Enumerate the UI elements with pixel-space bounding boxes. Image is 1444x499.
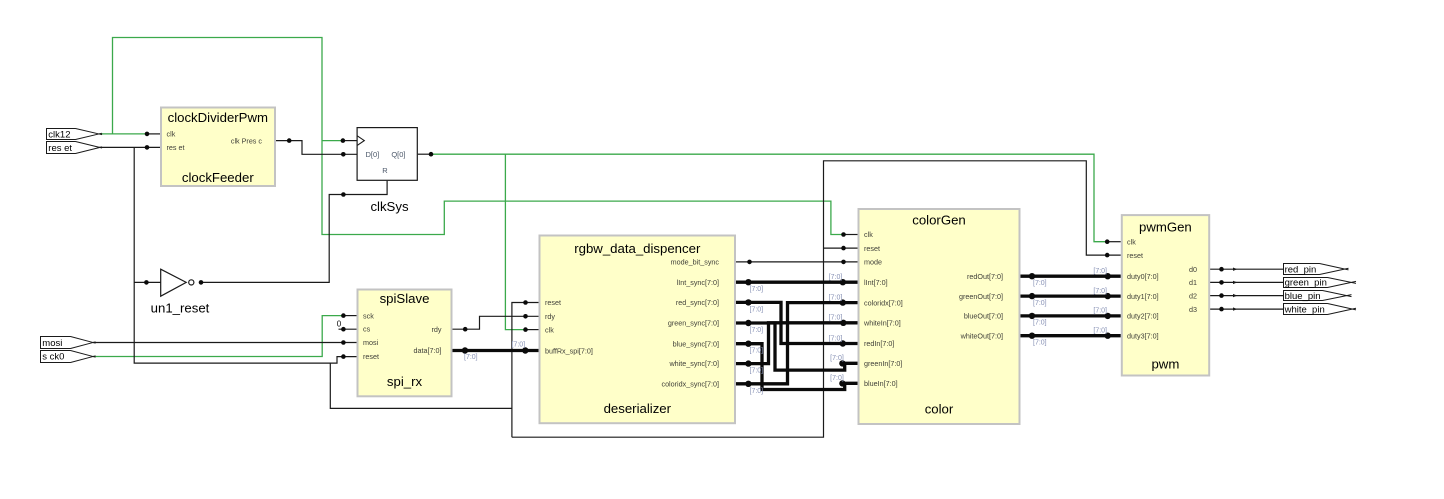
- node duty3 pin: [1105, 333, 1111, 339]
- module U4 deserializer (rgbw_data_dispencer): [540, 236, 736, 424]
- node colorGen reset pin: [841, 246, 846, 251]
- svg-text:green_pin: green_pin: [1285, 278, 1327, 289]
- wire clk12 black stubs at pins: [147, 134, 858, 235]
- svg-text:color: color: [925, 402, 954, 417]
- node colorGen lInt pin: [840, 279, 846, 285]
- input port reset: [47, 142, 103, 155]
- svg-text:clk12: clk12: [48, 130, 70, 141]
- node deserializer rdy pin: [523, 314, 528, 319]
- node whiteOut output: [1029, 333, 1035, 339]
- wire net clkSys Q (green: clkSys Q to deserializer clk and pwmGen clk): [431, 154, 1107, 329]
- node clkSys clk pin: [341, 138, 346, 143]
- svg-text:res et: res et: [167, 143, 185, 152]
- svg-text:spiSlave: spiSlave: [380, 291, 430, 306]
- svg-text:[7:0]: [7:0]: [1093, 328, 1107, 335]
- wire clkSys Q black stubs: [418, 154, 1121, 329]
- node white_sync output: [745, 360, 751, 366]
- svg-text:D[0]: D[0]: [366, 150, 380, 159]
- svg-text:d0: d0: [1189, 265, 1197, 274]
- svg-text:R: R: [382, 166, 388, 175]
- wire net sck0 (green: sck0 port to spiSlave sck): [93, 316, 344, 357]
- svg-text:reset: reset: [864, 244, 880, 253]
- arrow tick on d0 wire: [1233, 268, 1237, 271]
- wire net clkPresc (clockDividerPwm clkPresc to clkSys D): [276, 141, 357, 155]
- svg-text:data[7:0]: data[7:0]: [414, 346, 442, 355]
- svg-text:[7:0]: [7:0]: [464, 354, 478, 361]
- node colorGen blueIn pin: [839, 380, 845, 386]
- wire net reset (reset port to clockFeeder, un1_reset, spiSlave, deserializer, colorGen, pwmGen): [99, 147, 1121, 437]
- output port blue_pin: [1284, 291, 1352, 302]
- svg-text:[7:0]: [7:0]: [1093, 288, 1107, 295]
- node colorGen mode pin: [841, 260, 846, 265]
- node coloridx_sync output: [745, 381, 751, 387]
- svg-text:whiteOut[7:0]: whiteOut[7:0]: [960, 331, 1003, 340]
- svg-text:mosi: mosi: [42, 338, 62, 349]
- node spiSlave mosi pin: [341, 340, 346, 345]
- svg-text:d2: d2: [1189, 291, 1197, 300]
- node spiSlave rdy output: [463, 327, 468, 332]
- svg-text:[7:0]: [7:0]: [750, 348, 764, 355]
- node lInt_sync output: [745, 279, 751, 285]
- svg-text:whiteIn[7:0]: whiteIn[7:0]: [863, 319, 901, 328]
- node deserializer buffRx_spi pin: [522, 347, 528, 353]
- node redOut output: [1029, 273, 1035, 279]
- node greenOut output: [1029, 293, 1035, 299]
- svg-text:0: 0: [337, 320, 342, 329]
- svg-text:rdy: rdy: [432, 325, 442, 334]
- node pwmGen clk pin: [1105, 239, 1110, 244]
- module U3 spi_rx (spiSlave): [358, 290, 452, 397]
- wire net mode_bit_sync (deserializer to colorGen mode): [736, 261, 858, 263]
- wire net d3 (pwmGen d3 to white_pin): [1210, 308, 1283, 310]
- inverter un1_reset: [151, 269, 210, 315]
- svg-text:clockFeeder: clockFeeder: [182, 170, 254, 185]
- svg-text:d1: d1: [1189, 278, 1197, 287]
- svg-text:mosi: mosi: [363, 338, 379, 347]
- svg-text:[7:0]: [7:0]: [750, 368, 764, 375]
- output port white_pin: [1284, 304, 1357, 316]
- svg-text:clk: clk: [545, 325, 554, 334]
- flip-flop U2 clkSys: [357, 128, 417, 214]
- bus net coloridx_sync[7:0] (deserializer to colorGen coloridx): [736, 303, 858, 384]
- node d2 output: [1219, 293, 1224, 298]
- svg-text:[7:0]: [7:0]: [750, 388, 764, 395]
- bus net green_sync[7:0] (deserializer to colorGen greenIn): [736, 323, 858, 370]
- svg-text:clkSys: clkSys: [370, 199, 409, 214]
- svg-text:duty3[7:0]: duty3[7:0]: [1127, 331, 1159, 340]
- svg-text:[7:0]: [7:0]: [829, 335, 843, 342]
- node colorGen coloridx pin: [840, 299, 846, 305]
- svg-text:duty1[7:0]: duty1[7:0]: [1127, 292, 1159, 301]
- module U1 clockFeeder (clockDividerPwm): [161, 108, 275, 187]
- svg-text:[7:0]: [7:0]: [829, 274, 843, 281]
- svg-text:cs: cs: [363, 325, 371, 334]
- node un1_reset input: [144, 280, 149, 285]
- svg-text:blue_sync[7:0]: blue_sync[7:0]: [673, 339, 719, 348]
- svg-text:mode: mode: [864, 258, 882, 267]
- svg-text:buffRx_spi[7:0]: buffRx_spi[7:0]: [545, 346, 593, 355]
- svg-text:sck: sck: [363, 311, 374, 320]
- svg-text:res et: res et: [48, 143, 72, 154]
- svg-text:white_sync[7:0]: white_sync[7:0]: [668, 359, 719, 368]
- input port sck0: [41, 351, 96, 363]
- svg-text:mode_bit_sync: mode_bit_sync: [671, 258, 720, 267]
- node duty2 pin: [1105, 313, 1111, 319]
- svg-text:coloridx[7:0]: coloridx[7:0]: [864, 298, 903, 307]
- node clockFeeder clk pin: [145, 132, 150, 137]
- svg-text:pwm: pwm: [1151, 356, 1179, 371]
- svg-text:blue_pin: blue_pin: [1285, 291, 1321, 302]
- svg-text:Q[0]: Q[0]: [391, 150, 405, 159]
- svg-text:blueOut[7:0]: blueOut[7:0]: [964, 312, 1003, 321]
- wire net rdy (spiSlave rdy to deserializer rdy): [453, 316, 539, 329]
- node clkPresc output: [287, 138, 292, 143]
- node duty1 pin: [1105, 293, 1111, 299]
- svg-text:s ck0: s ck0: [42, 352, 64, 363]
- node clkSys Q output: [429, 152, 434, 157]
- svg-text:[7:0]: [7:0]: [512, 342, 526, 349]
- svg-text:[7:0]: [7:0]: [750, 286, 764, 293]
- svg-text:d3: d3: [1189, 305, 1197, 314]
- node pwmGen reset pin: [1105, 253, 1110, 258]
- module U5 color (colorGen): [859, 209, 1020, 424]
- svg-text:duty2[7:0]: duty2[7:0]: [1127, 312, 1159, 321]
- svg-text:coloridx_sync[7:0]: coloridx_sync[7:0]: [661, 379, 719, 388]
- bus net blue_sync[7:0] (deserializer to colorGen blueIn): [736, 344, 858, 390]
- node clkSys D pin: [341, 152, 346, 157]
- node green_sync output: [745, 320, 751, 326]
- svg-text:red_sync[7:0]: red_sync[7:0]: [676, 298, 719, 307]
- bus net redOut[7:0] (colorGen to pwmGen duty0): [1021, 275, 1121, 278]
- input port mosi: [41, 337, 96, 349]
- svg-text:[7:0]: [7:0]: [830, 355, 844, 362]
- svg-text:white_pin: white_pin: [1284, 304, 1325, 315]
- node d3 output: [1219, 307, 1224, 312]
- node colorGen clk pin: [841, 232, 846, 237]
- node clkSys R net: [341, 192, 346, 197]
- svg-text:reset: reset: [1127, 251, 1143, 260]
- svg-text:clk: clk: [1127, 237, 1136, 246]
- wire net d2 (pwmGen d2 to blue_pin): [1210, 295, 1283, 297]
- svg-text:red_pin: red_pin: [1285, 265, 1317, 276]
- svg-text:[7:0]: [7:0]: [1093, 308, 1107, 315]
- svg-text:[7:0]: [7:0]: [830, 375, 844, 382]
- node colorGen redIn pin: [840, 340, 846, 346]
- node d1 output: [1219, 280, 1224, 285]
- bus net whiteOut[7:0] (colorGen to pwmGen duty3): [1021, 334, 1121, 337]
- svg-text:[7:0]: [7:0]: [1033, 280, 1047, 287]
- svg-text:lInt_sync[7:0]: lInt_sync[7:0]: [677, 278, 719, 287]
- wire net un1_reset out (inverter output to clkSys R): [201, 181, 387, 283]
- svg-text:clk: clk: [864, 230, 873, 239]
- svg-text:greenOut[7:0]: greenOut[7:0]: [959, 292, 1003, 301]
- svg-text:spi_rx: spi_rx: [387, 374, 423, 389]
- bus net red_sync[7:0] (deserializer to colorGen redIn): [736, 302, 858, 343]
- input port clk12: [47, 129, 103, 141]
- svg-text:[7:0]: [7:0]: [750, 327, 764, 334]
- svg-text:clockDividerPwm: clockDividerPwm: [168, 110, 268, 125]
- arrow tick on d2 wire: [1233, 294, 1237, 297]
- node un1_reset output: [199, 280, 204, 285]
- bus net blueOut[7:0] (colorGen to pwmGen duty2): [1021, 314, 1121, 317]
- wire net d0 (pwmGen d0 to red_pin): [1210, 268, 1283, 270]
- node spiSlave cs pin: [341, 327, 346, 332]
- svg-text:lInt[7:0]: lInt[7:0]: [864, 278, 888, 287]
- svg-text:[7:0]: [7:0]: [1093, 268, 1107, 275]
- wire net mosi (mosi port to spiSlave mosi): [93, 342, 357, 344]
- node spiSlave sck pin: [341, 313, 346, 318]
- svg-text:redOut[7:0]: redOut[7:0]: [967, 272, 1003, 281]
- node mode_bit_sync output: [747, 260, 752, 265]
- node colorGen greenIn pin: [839, 360, 845, 366]
- svg-text:clk: clk: [167, 130, 176, 139]
- svg-text:un1_reset: un1_reset: [151, 300, 210, 315]
- svg-text:reset: reset: [545, 298, 561, 307]
- arrow tick on d1 wire: [1233, 281, 1237, 284]
- bus net white_sync[7:0] (deserializer to colorGen whiteIn): [736, 323, 858, 364]
- node deserializer reset pin: [523, 300, 528, 305]
- node deserializer clk pin: [523, 327, 528, 332]
- output port red_pin: [1284, 264, 1349, 276]
- node colorGen whiteIn pin: [840, 320, 846, 326]
- svg-text:blueIn[7:0]: blueIn[7:0]: [864, 379, 898, 388]
- BLOCKS: [41, 108, 1357, 425]
- svg-text:rgbw_data_dispencer: rgbw_data_dispencer: [574, 241, 701, 256]
- node spiSlave reset pin: [341, 354, 346, 359]
- svg-text:[7:0]: [7:0]: [1033, 320, 1047, 327]
- LABELS: [337, 268, 1107, 395]
- arrow tick on d3 wire: [1233, 307, 1237, 310]
- output port green_pin: [1284, 278, 1357, 289]
- svg-text:[7:0]: [7:0]: [750, 306, 764, 313]
- wire constant 0 stub to spiSlave cs: [339, 328, 357, 330]
- svg-text:pwmGen: pwmGen: [1139, 219, 1192, 234]
- svg-text:reset: reset: [363, 352, 379, 361]
- node blueOut output: [1029, 313, 1035, 319]
- module U6 pwm (pwmGen): [1122, 215, 1209, 375]
- svg-text:green_sync[7:0]: green_sync[7:0]: [668, 319, 719, 328]
- svg-text:redIn[7:0]: redIn[7:0]: [864, 339, 894, 348]
- svg-text:duty0[7:0]: duty0[7:0]: [1127, 272, 1159, 281]
- svg-text:deserializer: deserializer: [604, 401, 672, 416]
- svg-text:clk Pres c: clk Pres c: [231, 136, 263, 145]
- bus net data[7:0] (spiSlave data to deserializer buffRx_spi): [453, 349, 539, 352]
- node clockFeeder reset pin: [145, 145, 150, 150]
- svg-text:[7:0]: [7:0]: [829, 315, 843, 322]
- svg-text:[7:0]: [7:0]: [829, 295, 843, 302]
- svg-text:greenIn[7:0]: greenIn[7:0]: [864, 359, 902, 368]
- bus net greenOut[7:0] (colorGen to pwmGen duty1): [1021, 294, 1121, 297]
- node duty0 pin: [1105, 273, 1111, 279]
- svg-text:[7:0]: [7:0]: [1033, 300, 1047, 307]
- node blue_sync output: [745, 341, 751, 347]
- svg-text:colorGen: colorGen: [912, 212, 966, 227]
- svg-text:[7:0]: [7:0]: [1033, 339, 1047, 346]
- bus net lInt_sync[7:0] (deserializer to colorGen lInt): [736, 281, 858, 284]
- node d0 output: [1219, 267, 1224, 272]
- wire sck black stub: [343, 315, 356, 317]
- node red_sync output: [745, 299, 751, 305]
- svg-text:rdy: rdy: [545, 312, 555, 321]
- wire net clk12 (green clock net: clk12 port to clockDividerPwm clk, clkSys clk, colorGen clk): [99, 38, 843, 235]
- wire net d1 (pwmGen d1 to green_pin): [1210, 281, 1283, 283]
- node spiSlave data output: [462, 347, 468, 353]
